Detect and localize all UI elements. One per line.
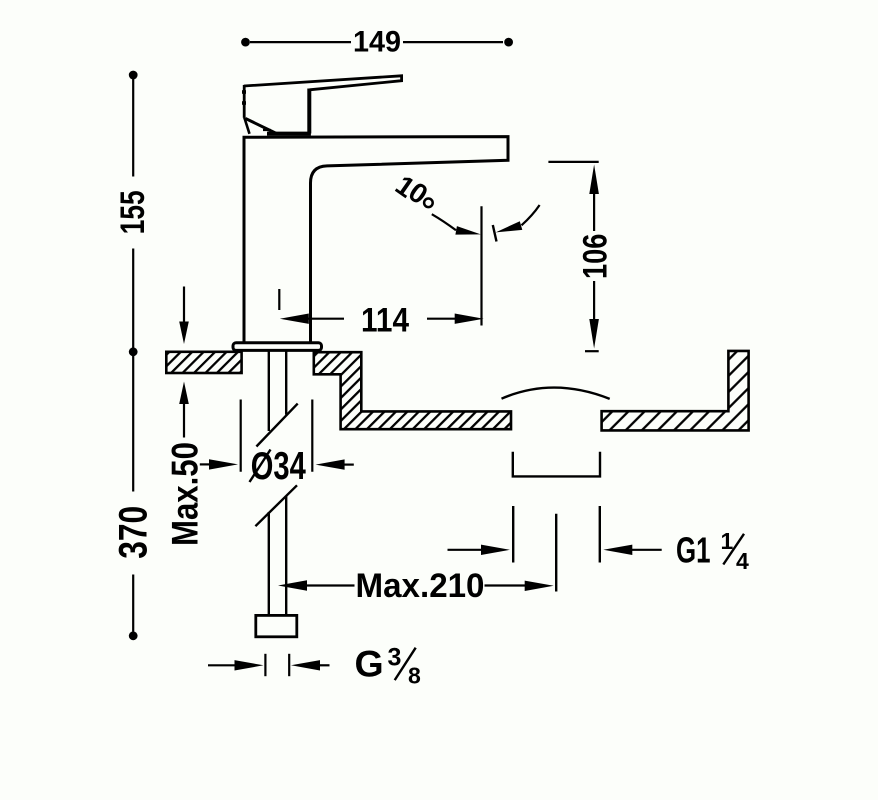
dim 106 top extension line [548,161,598,163]
dim 114 right arrowhead [455,314,484,324]
drain pipe right line [599,506,601,563]
svg-text:1: 1 [721,528,734,554]
dim 149 left dot [241,38,250,47]
svg-text:4: 4 [736,548,749,574]
dim O34 left extension line [240,400,242,472]
drain pipe left line [512,506,514,563]
pipe break slash upper [256,404,297,447]
dim Max.50 upper arrow shaft [183,287,185,325]
dim Max.50 lower arrow shaft [183,402,185,438]
left dim middle dot [129,347,138,356]
left dim bottom dot [129,631,138,640]
dim 106 top arrowhead [589,165,599,195]
dim Max.210 left shaft [306,584,355,586]
basin right section with upturn (hatched) [602,351,749,431]
dim G1-1/4 right arrowhead [603,545,632,555]
dim G3/8 right arrowhead [291,660,320,670]
dim G1-1/4 right shaft [631,549,662,551]
supply pipe lower left line [268,512,270,616]
dim 114 left arrowhead [280,314,309,324]
svg-text:370: 370 [112,506,156,559]
dim 149 right dot [504,38,513,47]
svg-text:8: 8 [408,662,421,688]
dim 106 upper shaft [593,192,595,231]
dim G3/8 left tick [264,654,266,676]
faucet body and spout outline [244,137,508,342]
handle neck [307,89,311,134]
dim G1-1/4 left shaft [448,549,484,551]
dim G1-1/4 left arrowhead [481,545,510,555]
svg-text:114: 114 [361,302,409,340]
counter left section (hatched) [166,352,241,373]
svg-text:155: 155 [114,190,152,234]
angle tilted tick [493,225,497,242]
supply pipe upper right line [285,352,287,415]
dim 149 line left segment [250,41,351,43]
handle wedge front line [244,118,249,134]
dim Max.210 right arrowhead [525,581,554,591]
svg-text:G1: G1 [676,530,711,571]
dim O34 diameter slash [250,450,271,483]
svg-text:3: 3 [388,643,402,671]
angle arc left branch [432,214,456,230]
angle arc right branch [522,205,540,225]
dim 114 right shaft [427,318,457,320]
handle wedge diagonal [246,119,278,135]
dim G3/8 fraction slash [395,648,416,680]
dim G3/8 left shaft [208,664,237,666]
handle left end notches [242,90,246,94]
dim 106 lower shaft [593,281,595,321]
pipe break slash lower [255,485,297,526]
dim O34 left arrowhead [209,459,238,469]
drain tailpiece bracket [513,452,600,477]
dim Max.210 left arrowhead [278,580,307,590]
dim Max.50 lower arrowhead [179,382,189,405]
faucet base flange [233,343,322,351]
angle 10 deg degree circle [424,199,433,208]
left dim line segment 2 [132,249,134,492]
supply pipe end nut [256,615,297,636]
angle reference vertical line [480,206,482,325]
dim 114 left shaft [307,318,344,320]
dim O34 right extension line [311,400,313,472]
drain pipe center line [555,514,557,592]
handle left end cap [243,85,246,118]
angle arc right arrowhead [496,221,523,232]
dim G3/8 left arrowhead [235,660,264,670]
svg-text:106: 106 [577,234,615,280]
basin step section right of faucet (hatched) [314,352,511,429]
handle lever [244,76,402,90]
dim O34 left arrow shaft [200,463,212,465]
dim Max.50 upper arrowhead [179,322,189,345]
dim G3/8 right shaft [319,664,330,666]
dim 114 left tick [278,289,280,310]
valve top line [267,132,311,136]
dim O34 right arrow shaft [343,464,354,466]
dim 106 bottom arrowhead [589,319,599,349]
dim G3/8 right tick [288,654,290,676]
dim 106 bottom tick [585,350,599,352]
svg-text:Max.50: Max.50 [164,442,206,546]
supply pipe upper left line [268,352,270,432]
supply pipe lower right line [285,496,287,616]
left dim top dot [129,71,138,80]
dim Max.210 right shaft [485,584,527,586]
dim O34 right arrowhead [316,459,345,469]
drain dome arc [502,388,610,399]
left dim line segment 1 [132,79,134,177]
left dim line segment 3 [132,575,134,632]
angle arc left arrowhead [455,226,480,235]
dim G1-1/4 fraction slash [723,534,744,565]
dim 149 line right segment [403,41,503,43]
svg-text:149: 149 [353,26,401,59]
svg-text:G: G [355,643,384,685]
handle wedge foot [263,129,271,131]
svg-text:Max.210: Max.210 [356,567,485,605]
